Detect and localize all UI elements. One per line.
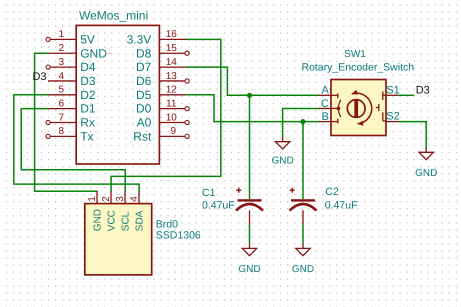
svg-text:3: 3 bbox=[115, 196, 126, 202]
capacitor C1 (polarized, 0.47uF) bbox=[236, 188, 263, 225]
svg-text:C: C bbox=[321, 98, 329, 110]
faint stub right of GND pin name bbox=[105, 52, 112, 54]
IC U1 WeMos_mini body bbox=[76, 25, 159, 164]
svg-text:A: A bbox=[321, 85, 329, 97]
pin 9 (Rst) of U1 bbox=[133, 126, 189, 143]
svg-text:SCL: SCL bbox=[121, 211, 132, 231]
SW1 rotation arrowhead (bottom) bbox=[358, 121, 364, 126]
svg-text:GND: GND bbox=[93, 209, 104, 231]
rotary encoder SW1 body bbox=[331, 80, 386, 136]
wire: U1 pin5 D2 -> OLED SDA bbox=[14, 95, 139, 192]
svg-text:Rotary_Encoder_Switch: Rotary_Encoder_Switch bbox=[301, 62, 414, 74]
svg-text:4: 4 bbox=[129, 196, 140, 202]
svg-text:D3: D3 bbox=[32, 71, 46, 83]
svg-text:GND: GND bbox=[238, 264, 260, 275]
SW1 pin C stub bbox=[319, 98, 331, 110]
svg-text:1: 1 bbox=[58, 29, 64, 40]
SW1 knob circle bbox=[347, 100, 365, 118]
svg-text:D5: D5 bbox=[136, 88, 152, 102]
SW1 push-switch actuator bbox=[376, 104, 379, 111]
OLED pin 4 (SDA) bbox=[129, 191, 146, 231]
svg-text:16: 16 bbox=[166, 29, 178, 40]
ground (C2) bbox=[292, 244, 314, 275]
wire: SW1 pin C -> ground bbox=[283, 108, 319, 137]
svg-text:C2: C2 bbox=[325, 186, 339, 198]
svg-text:WeMos_mini: WeMos_mini bbox=[79, 8, 148, 22]
svg-text:2: 2 bbox=[58, 43, 64, 54]
svg-text:SW1: SW1 bbox=[344, 49, 366, 60]
svg-text:15: 15 bbox=[166, 43, 178, 54]
OLED pin 3 (SCL) bbox=[115, 191, 132, 231]
svg-text:VCC: VCC bbox=[107, 210, 118, 231]
svg-text:D1: D1 bbox=[80, 102, 96, 116]
ground (C1) bbox=[238, 244, 260, 275]
SW1 pin A stub bbox=[319, 85, 331, 97]
ground (encoder C) bbox=[271, 137, 293, 166]
OLED pin 1 (GND) bbox=[87, 191, 104, 231]
svg-text:3: 3 bbox=[58, 57, 64, 68]
pin 14 (D7) of U1 bbox=[136, 57, 187, 74]
svg-text:4: 4 bbox=[58, 71, 64, 82]
wire: SW1 pin S1 -> label D3 bbox=[399, 94, 415, 96]
svg-text:D7: D7 bbox=[136, 60, 152, 74]
wire: C1 -> ground bbox=[249, 225, 251, 244]
pin 7 (Rx) of U1 bbox=[46, 112, 95, 129]
svg-text:0.47uF: 0.47uF bbox=[325, 199, 358, 211]
SW1 pin S2 stub bbox=[386, 110, 400, 122]
pin 15 (D8) of U1 bbox=[136, 43, 189, 60]
wire: U1 pin16 3.3V -> OLED VCC bbox=[111, 39, 221, 191]
junction node on D7 net above C1 bbox=[247, 93, 252, 98]
svg-text:3.3V: 3.3V bbox=[127, 32, 152, 46]
svg-text:GND: GND bbox=[80, 46, 107, 60]
svg-text:S1: S1 bbox=[386, 85, 399, 97]
pin 1 (5V) of U1 bbox=[46, 29, 95, 46]
pin 5 (D2) of U1 bbox=[48, 85, 96, 102]
svg-text:Tx: Tx bbox=[80, 129, 93, 143]
SW1 knob bar bbox=[354, 100, 358, 117]
svg-text:D0: D0 bbox=[136, 102, 152, 116]
svg-text:10: 10 bbox=[166, 112, 178, 123]
svg-text:14: 14 bbox=[166, 57, 178, 68]
junction node on D5 net above C2 bbox=[300, 119, 305, 124]
pin 16 (3.3V) of U1 bbox=[127, 29, 187, 46]
svg-text:SDA: SDA bbox=[135, 210, 146, 231]
svg-text:5V: 5V bbox=[80, 32, 95, 46]
pin 11 (D0) of U1 bbox=[136, 98, 189, 115]
SW1 contact finger A bbox=[331, 94, 341, 108]
ground (S2) bbox=[415, 148, 437, 179]
pin 13 (D6) of U1 bbox=[136, 71, 189, 88]
pin 2 (GND) of U1 bbox=[48, 43, 107, 60]
svg-text:9: 9 bbox=[171, 126, 177, 137]
svg-text:11: 11 bbox=[166, 98, 177, 109]
wire: U1 pin14 D7 -> SW1 pin A bbox=[187, 67, 319, 95]
svg-text:1: 1 bbox=[87, 196, 98, 202]
svg-text:GND: GND bbox=[292, 264, 314, 275]
svg-text:12: 12 bbox=[166, 85, 178, 96]
OLED module Brd0 body bbox=[85, 204, 152, 275]
svg-text:D2: D2 bbox=[80, 88, 96, 102]
svg-text:S2: S2 bbox=[386, 110, 399, 122]
svg-text:GND: GND bbox=[415, 168, 437, 179]
SW1 rotation arrow arc bbox=[352, 93, 372, 124]
svg-text:D4: D4 bbox=[80, 60, 96, 74]
svg-text:2: 2 bbox=[101, 196, 112, 202]
SW1 push-switch contact S2 bbox=[383, 112, 386, 121]
svg-text:C1: C1 bbox=[202, 187, 216, 199]
wire: SW1 pin S2 -> ground bbox=[399, 122, 427, 148]
svg-text:D3: D3 bbox=[80, 74, 96, 88]
capacitor C2 (polarized, 0.47uF) bbox=[290, 188, 317, 225]
OLED pin 2 (VCC) bbox=[101, 191, 118, 231]
svg-text:0.47uF: 0.47uF bbox=[202, 200, 235, 212]
pin 10 (A0) of U1 bbox=[137, 112, 190, 129]
wire: U1 pin2 GND -> OLED pin1 GND bbox=[35, 53, 97, 191]
pin 12 (D5) of U1 bbox=[136, 85, 187, 102]
svg-text:D3: D3 bbox=[416, 85, 430, 97]
svg-text:GND: GND bbox=[271, 155, 293, 166]
svg-text:B: B bbox=[321, 111, 328, 123]
SW1 push-switch contact S1 bbox=[383, 92, 386, 100]
pin 8 (Tx) of U1 bbox=[46, 126, 94, 143]
svg-text:Rst: Rst bbox=[133, 129, 152, 143]
pin 6 (D1) of U1 bbox=[48, 98, 96, 115]
SW1 pin S1 stub bbox=[386, 85, 400, 97]
svg-text:8: 8 bbox=[58, 126, 64, 137]
svg-text:13: 13 bbox=[166, 71, 178, 82]
svg-text:D6: D6 bbox=[136, 74, 152, 88]
pin 4 (D3) of U1 bbox=[48, 71, 96, 88]
svg-text:7: 7 bbox=[58, 112, 64, 123]
svg-text:Rx: Rx bbox=[80, 116, 95, 130]
pin 3 (D4) of U1 bbox=[46, 57, 96, 74]
SW1 contact finger B bbox=[331, 110, 341, 124]
wire: junction -> C1 top bbox=[249, 95, 251, 199]
svg-text:SSD1306: SSD1306 bbox=[156, 229, 201, 241]
SW1 contact C with dot bbox=[331, 107, 340, 111]
svg-text:D8: D8 bbox=[136, 46, 152, 60]
wire: junction -> C2 top bbox=[302, 122, 304, 199]
wire: C2 -> ground bbox=[302, 225, 304, 244]
wire: U1 pin6 D1 -> OLED SCL bbox=[21, 109, 125, 192]
svg-text:6: 6 bbox=[58, 98, 64, 109]
svg-text:5: 5 bbox=[58, 85, 64, 96]
svg-text:A0: A0 bbox=[137, 116, 152, 130]
SW1 pin B stub bbox=[319, 111, 331, 123]
SW1 rotation arrowhead (top) bbox=[352, 90, 358, 95]
wire: U1 pin12 D5 -> SW1 pin B bbox=[186, 95, 319, 122]
